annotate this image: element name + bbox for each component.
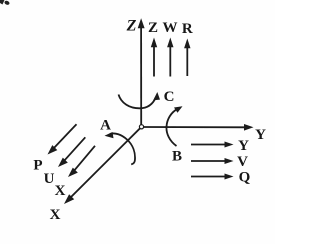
svg-text:Q: Q <box>239 170 251 186</box>
svg-text:U: U <box>44 171 55 187</box>
rotation arrow A (about X axis) <box>105 132 136 164</box>
arrow X (down-left group) <box>68 146 95 177</box>
arrow Z (up group) <box>151 38 157 77</box>
rotation arrow C (about Z axis) <box>119 92 161 108</box>
arrow W (up group) <box>167 38 173 77</box>
axis Z (vertical) <box>138 18 145 127</box>
arrow R (up group) <box>184 39 190 77</box>
arrow P (down-left group) <box>48 124 77 154</box>
svg-text:P: P <box>33 158 42 174</box>
svg-text:Y: Y <box>255 127 266 143</box>
svg-text:C: C <box>164 89 175 105</box>
rotation arrow B (about Y axis) <box>166 106 182 146</box>
svg-text:Z: Z <box>148 20 158 36</box>
svg-text:V: V <box>237 154 248 170</box>
arrow Q (right group) <box>191 174 234 180</box>
arrow V (right group) <box>191 158 234 164</box>
svg-text:A: A <box>100 118 111 134</box>
axis Y (horizontal) <box>142 124 254 131</box>
arrow U (down-left group) <box>58 137 85 167</box>
svg-text:X: X <box>55 183 66 199</box>
svg-text:B: B <box>172 149 182 165</box>
origin node <box>139 125 143 129</box>
svg-text:Y: Y <box>238 138 249 154</box>
svg-text:Z: Z <box>126 18 137 35</box>
svg-text:R: R <box>182 21 193 37</box>
svg-text:X: X <box>50 207 61 223</box>
axis X (diagonal) <box>64 127 142 204</box>
svg-text:W: W <box>163 20 178 36</box>
corner mark <box>0 0 10 6</box>
arrow Y (right group) <box>191 142 234 148</box>
